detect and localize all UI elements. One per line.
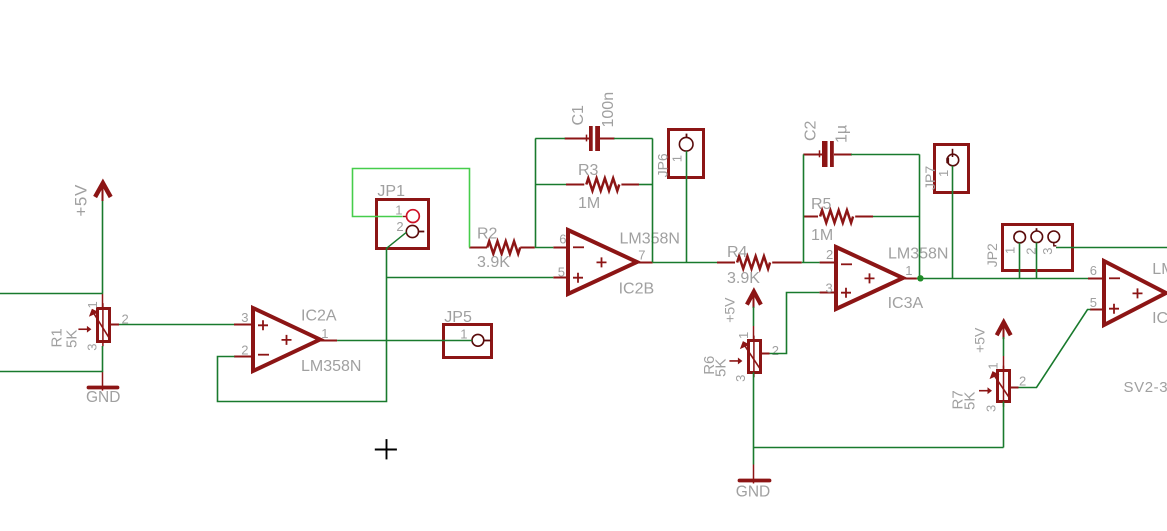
resistor R3	[535, 178, 652, 191]
svg-text:IC3A: IC3A	[888, 295, 924, 312]
svg-text:+5V: +5V	[972, 327, 988, 353]
connector JP6	[669, 130, 704, 178]
svg-text:1: 1	[986, 362, 1001, 369]
svg-text:IC2B: IC2B	[619, 281, 655, 298]
wire R1 wiper to IC2A pin3	[119, 324, 234, 326]
svg-text:3: 3	[733, 375, 748, 382]
svg-text:5K: 5K	[713, 359, 730, 377]
wire JP6 drop to output net	[686, 151, 688, 262]
svg-text:+5V: +5V	[71, 184, 90, 217]
svg-text:3: 3	[826, 281, 833, 296]
capacitor C1	[565, 126, 615, 151]
op-amp IC2A	[234, 308, 337, 371]
svg-text:SV2-3-4: SV2-3-4	[1124, 379, 1167, 396]
wire IC3A output to IC3B pin6	[917, 278, 1088, 280]
svg-text:R5: R5	[811, 196, 832, 213]
svg-text:3.9K: 3.9K	[727, 270, 760, 287]
svg-text:IC2A: IC2A	[301, 308, 337, 325]
svg-text:3: 3	[1040, 248, 1055, 255]
wire C2 right lead	[851, 154, 919, 156]
op-amp IC3B	[1088, 261, 1166, 325]
origin crosshair	[375, 439, 397, 459]
svg-text:7: 7	[638, 248, 645, 263]
wire C1/R3 right rail	[652, 139, 654, 263]
wire input net B (left edge)	[0, 371, 103, 373]
wire C1/R3 left rail	[535, 139, 537, 248]
svg-text:100n: 100n	[600, 92, 617, 128]
svg-text:5K: 5K	[961, 392, 978, 410]
power +5V supply (R7)	[997, 322, 1011, 339]
trimmer R6	[729, 326, 769, 377]
svg-text:R4: R4	[727, 244, 748, 261]
connector JP2	[1003, 225, 1073, 271]
svg-text:2: 2	[772, 343, 779, 358]
resistor R5	[803, 210, 919, 223]
capacitor C2	[803, 141, 852, 167]
svg-text:+5V: +5V	[721, 297, 737, 323]
svg-text:2: 2	[241, 342, 248, 357]
svg-text:3: 3	[984, 405, 999, 412]
svg-text:5K: 5K	[64, 330, 81, 348]
svg-text:JP2: JP2	[984, 243, 1000, 267]
wire JP1 pin2 to output node (diagonal)	[386, 232, 406, 248]
svg-text:JP1: JP1	[377, 183, 405, 200]
svg-text:LM358N: LM358N	[620, 231, 680, 248]
svg-text:1: 1	[736, 332, 751, 339]
wire +5V to R6 pin1	[753, 307, 755, 326]
svg-text:1: 1	[670, 155, 685, 162]
svg-text:1: 1	[460, 326, 467, 341]
svg-text:1: 1	[936, 170, 951, 177]
wire C1 left lead	[535, 138, 565, 140]
wire R6 pin3 to GND and rail	[753, 372, 755, 464]
svg-text:LM358N: LM358N	[1152, 261, 1167, 278]
wire C2/R5 right rail	[919, 154, 921, 278]
svg-text:C2: C2	[803, 120, 820, 141]
svg-text:1: 1	[905, 263, 912, 278]
trimmer R7	[979, 356, 1019, 407]
wire IC2A feedback loop to pin2	[218, 249, 387, 402]
svg-text:5: 5	[558, 265, 565, 280]
svg-text:JP6: JP6	[654, 153, 670, 177]
svg-text:IC3B: IC3B	[1152, 310, 1167, 327]
svg-text:1: 1	[1003, 247, 1018, 254]
wire IC2B output to R4	[653, 262, 717, 264]
resistor R2	[469, 241, 535, 254]
svg-text:3: 3	[85, 344, 100, 351]
op-amp IC2B	[553, 230, 652, 294]
connector JP1	[377, 200, 429, 249]
svg-text:3.9K: 3.9K	[477, 254, 510, 271]
wire IC2A output to JP5	[337, 340, 472, 342]
wire node to IC2B pin5	[386, 277, 553, 279]
wire JP2 pin3 out to right	[1056, 247, 1167, 249]
wire JP1 pin1 highlighted net to R2	[353, 169, 470, 248]
wire C2/R5 left rail	[803, 154, 805, 262]
svg-text:3: 3	[241, 310, 248, 325]
svg-text:6: 6	[1090, 263, 1097, 278]
op-amp IC3A	[820, 247, 917, 309]
svg-text:GND: GND	[86, 389, 120, 406]
wire ground rail to R7	[754, 447, 1004, 449]
trimmer R1	[78, 294, 119, 347]
wire JP2 pin1 drop	[1019, 243, 1021, 278]
svg-text:2: 2	[396, 219, 403, 234]
ground GND (bottom)	[740, 465, 770, 484]
svg-text:LM358N: LM358N	[888, 245, 948, 262]
svg-text:R3: R3	[578, 162, 599, 179]
wire R7 pin3 to ground rail	[1003, 402, 1005, 448]
svg-text:1µ: 1µ	[834, 125, 851, 143]
wire R2 to IC2B pin6	[535, 247, 554, 249]
svg-text:GND: GND	[736, 483, 770, 500]
svg-text:5: 5	[1090, 295, 1097, 310]
svg-text:1: 1	[321, 326, 328, 341]
wire C1 right lead	[614, 138, 653, 140]
wire JP2 pin2 drop	[1036, 243, 1038, 279]
svg-text:6: 6	[559, 231, 566, 246]
connector JP7	[935, 145, 969, 193]
svg-text:2: 2	[1019, 373, 1026, 388]
svg-text:JP5: JP5	[444, 309, 472, 326]
resistor R4	[717, 256, 802, 269]
wire R4 to IC3A pin2	[802, 262, 820, 264]
svg-text:1M: 1M	[811, 227, 833, 244]
svg-text:1: 1	[395, 203, 402, 218]
wire +5V to R7 pin1	[1003, 337, 1005, 356]
wire +5V to R1 pin1	[102, 201, 104, 294]
svg-text:1M: 1M	[578, 195, 600, 212]
connector JP5	[444, 325, 492, 358]
wire R6 wiper to IC3A pin3	[770, 293, 820, 354]
wire R7 wiper to IC3B pin5 (diagonal)	[1019, 310, 1091, 388]
svg-text:2: 2	[826, 247, 833, 262]
svg-text:C1: C1	[570, 105, 587, 126]
wire JP7 drop to output net	[952, 166, 954, 278]
wire R1 pin3 to GND	[102, 346, 104, 372]
junction dot IC3A output	[917, 275, 923, 281]
power +5V supply (R6)	[747, 292, 761, 308]
ground GND (left)	[89, 372, 118, 391]
svg-text:LM358N: LM358N	[301, 358, 361, 375]
svg-text:1: 1	[85, 301, 100, 308]
power +5V supply P1	[95, 183, 111, 201]
svg-text:R2: R2	[477, 226, 498, 243]
wire input net A (left edge)	[0, 293, 103, 295]
